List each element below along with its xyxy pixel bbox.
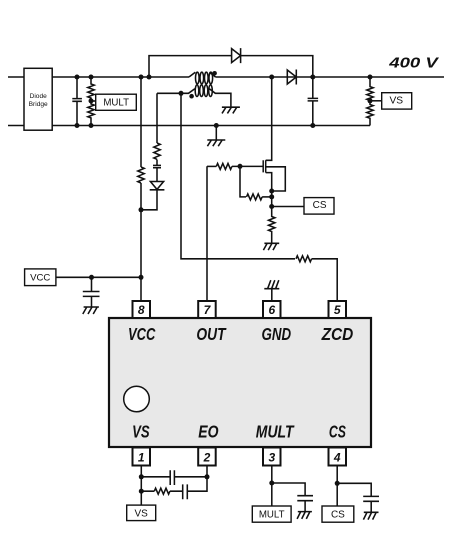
label box CS (bottom) [322, 506, 354, 522]
wire: bottom rail y=125.5 [52, 125, 370, 127]
capacitor C2 [308, 77, 319, 126]
svg-text:OUT: OUT [196, 326, 226, 345]
svg-text:EO: EO [198, 423, 219, 442]
transformer T1 primary [189, 72, 195, 77]
node MULT divider tap [89, 98, 94, 103]
node source [269, 189, 274, 194]
junction C1 bottom rail [75, 123, 80, 128]
resistor R9 (VS divider upper) [367, 77, 373, 101]
wire: pin7 riser [206, 166, 208, 301]
pin box 4 [329, 448, 347, 466]
junction top-branch riser rail [147, 75, 152, 80]
node VS divider tap [368, 98, 373, 103]
svg-text:MULT: MULT [103, 97, 129, 108]
capacitor C5 [170, 470, 174, 485]
label box VS (top right) [382, 93, 412, 109]
svg-text:4: 4 [333, 451, 341, 465]
wire: chain from secondary left, down [156, 93, 158, 143]
wire: top rail y=77 [52, 76, 189, 78]
wire: x=141 down to pin8 [140, 183, 142, 301]
svg-text:MULT: MULT [256, 423, 295, 442]
svg-text:MULT: MULT [259, 510, 285, 521]
resistor R6 (feedback) [247, 194, 263, 200]
svg-text:VCC: VCC [30, 273, 50, 284]
wire: source node down, CS tap [271, 191, 273, 207]
node EO cap row1 [139, 474, 144, 479]
svg-text:400 V: 400 V [388, 55, 440, 72]
svg-text:6: 6 [268, 303, 275, 317]
wire: ZCD resistor to pin5 [312, 259, 338, 301]
svg-text:VCC: VCC [128, 325, 156, 344]
pin numbers [138, 303, 341, 465]
svg-text:8: 8 [138, 303, 145, 317]
diode D2 (main rail) [287, 70, 296, 85]
wire: VS tap [370, 100, 382, 102]
svg-text:GND: GND [262, 326, 292, 345]
MOSFET Q1 drain riser [266, 77, 272, 160]
IC pin-1 circle [124, 386, 150, 412]
junction divider top rail [89, 75, 94, 80]
node pin3 cap tap [269, 481, 274, 486]
diode D1 (top branch) [232, 48, 241, 63]
pin box 6 [263, 301, 281, 318]
capacitor C3 (chain) [153, 160, 161, 182]
wire: AC input stubs [8, 77, 24, 126]
node ZCD tap on secondary [179, 91, 184, 96]
wire: pin3 drop [271, 466, 273, 507]
node pin2 side [205, 474, 210, 479]
svg-text:ZCD: ZCD [321, 325, 354, 344]
node chain joins VCC rail [139, 207, 144, 212]
junction C2 bottom rail [310, 123, 315, 128]
junction drain riser rail [269, 75, 274, 80]
svg-text:1: 1 [138, 451, 145, 465]
svg-text:Bridge: Bridge [29, 101, 48, 108]
resistor R4 (chain) [154, 143, 160, 159]
svg-text:CS: CS [329, 422, 346, 442]
wire: top branch to C2 corner [241, 56, 313, 77]
pin box 5 [329, 301, 347, 318]
MOSFET Q1 mid (source) loop [266, 167, 286, 191]
svg-text:2: 2 [203, 451, 211, 465]
diode D3 (chain, pointing down) [150, 182, 165, 190]
capacitor C8 [363, 496, 379, 512]
pin box 7 [198, 301, 216, 318]
diode bridge [24, 68, 52, 130]
resistor R5 (gate) [216, 163, 232, 169]
node pin4 cap tap [335, 481, 340, 486]
MOSFET Q1 bottom tap [266, 173, 272, 191]
wire: pin2 drop [187, 466, 207, 492]
wire: divider tap to MULT box [91, 100, 96, 102]
wire: feedback drop from gate node [240, 166, 246, 197]
label box MULT (top) [96, 94, 137, 110]
ground G4 (above pin6, inverted) [264, 280, 279, 289]
pin box 2 [198, 448, 216, 466]
svg-text:Diode: Diode [30, 93, 48, 100]
wire: ZCD line from secondary node [181, 93, 295, 258]
pin box 1 [133, 448, 151, 466]
node EO RC row2 [139, 489, 144, 494]
IC U1 body [109, 318, 371, 447]
resistor R1 (upper of MULT divider) [88, 77, 94, 101]
ground G1 (secondary right) [222, 107, 240, 113]
pin box 3 [263, 448, 281, 466]
IC pin labels [128, 325, 353, 442]
pin box 8 [133, 301, 151, 318]
svg-text:CS: CS [331, 510, 345, 521]
resistor R7 (source sense) [269, 207, 275, 244]
wire: gate from pin7 riser [207, 165, 216, 167]
ground G5 (VCC cap) [83, 307, 99, 314]
label box VCC [25, 269, 56, 286]
ground G7 [363, 512, 378, 519]
resistor R8 (ZCD) [296, 256, 312, 262]
wire: chain bottom to VCC rail [141, 190, 157, 210]
svg-text:CS: CS [313, 200, 327, 211]
node gate [238, 164, 243, 169]
wire: feedback resistor to source node [262, 196, 272, 198]
transformer T1 secondary [157, 89, 195, 94]
svg-text:VS: VS [135, 508, 149, 519]
svg-text:VS: VS [132, 423, 150, 442]
svg-text:5: 5 [334, 303, 341, 317]
wire: pin4 drop [336, 466, 338, 507]
capacitor C1 [72, 77, 82, 126]
svg-text:3: 3 [268, 451, 275, 465]
ground G6 [297, 512, 312, 519]
label box MULT (bottom) [252, 506, 291, 522]
capacitor C4 (VCC) [83, 277, 100, 307]
junction VCC dropper top rail [139, 75, 144, 80]
capacitor C7 [297, 496, 313, 512]
label box CS (mid) [304, 198, 334, 215]
resistor R3 (VCC dropper) [138, 167, 144, 183]
node VCC cap tap [89, 275, 94, 280]
MOSFET Q1 gate bar and channel [263, 160, 266, 172]
ground G3 (below R7) [263, 243, 279, 250]
junction ground tap bottom rail [214, 123, 219, 128]
label box VS (bottom) [127, 505, 156, 520]
resistor R10 (VS divider lower) [367, 101, 373, 126]
junction C2 top rail [310, 75, 315, 80]
wire: VCC dropper vertical x=141 top [140, 77, 142, 167]
resistor R11 (EO) [154, 488, 170, 494]
junction divider bottom rail [89, 123, 94, 128]
junction VS divider top rail [368, 75, 373, 80]
svg-text:VS: VS [390, 95, 404, 106]
wire: top branch riser x=149 [149, 56, 232, 77]
transformer T1 primary phase dot [212, 71, 217, 76]
transformer T1 secondary phase dot [189, 94, 194, 99]
node feedback resistor join [269, 194, 274, 199]
resistor R2 (lower of MULT divider) [88, 101, 94, 126]
wire: pin1 EO network [140, 466, 142, 506]
capacitor C6 [183, 484, 188, 499]
node CS sense [269, 204, 274, 209]
node VCC pin8 [139, 275, 144, 280]
wire: gate resistor to gate [232, 165, 263, 167]
ground G2 (bottom rail) [207, 140, 225, 146]
wire: VCC label line [56, 276, 141, 278]
junction C1 top rail [75, 75, 80, 80]
wire: bottom rail ground tap [215, 126, 217, 141]
